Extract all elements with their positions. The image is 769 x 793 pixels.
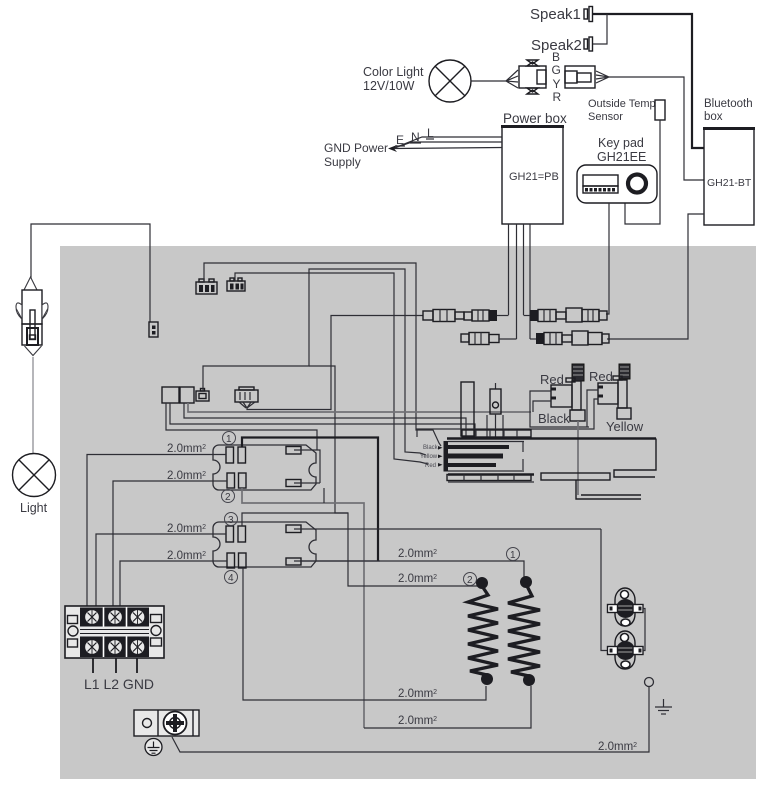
ground lug plate <box>134 710 199 736</box>
bullet connector pair row1-right <box>530 308 607 322</box>
lamp Color Light <box>429 60 471 102</box>
speaker connector J-SP1 <box>584 7 593 22</box>
svg-text:GH21=PB: GH21=PB <box>509 171 559 183</box>
inline lamp connector (left) <box>16 277 48 356</box>
svg-text:GH21EE: GH21EE <box>597 150 646 164</box>
small connector mid-left <box>196 389 209 402</box>
node 2 circled (coil end) <box>464 573 477 587</box>
wires solenoid1 leads <box>530 391 589 427</box>
relay RL2 pin pair bottom <box>227 553 246 568</box>
keypad GH21EE <box>577 165 657 203</box>
wire sensor to keypad <box>625 120 660 224</box>
solenoid valve S1 (Black) <box>551 364 585 421</box>
wire branch to relay2 area <box>309 366 348 513</box>
thermostat T2 <box>608 631 644 669</box>
arrow to GND power supply <box>388 145 397 152</box>
wire linking T1 and T2 right tabs <box>643 609 645 651</box>
node 1 circled (coil end) <box>507 548 520 562</box>
wire Speak2 join <box>593 14 607 44</box>
svg-text:2.0mm2: 2.0mm2 <box>398 573 437 585</box>
wire joining RL1 contacts <box>318 450 320 483</box>
svg-text:L: L <box>427 126 434 140</box>
svg-text:L1 L2 GND: L1 L2 GND <box>84 676 154 692</box>
svg-text:Outside Temp: Outside Temp <box>588 98 656 110</box>
heating element coil 2 <box>508 576 540 686</box>
svg-text:B: B <box>552 50 560 64</box>
wire row1-left to power wire <box>497 315 509 317</box>
wire CN2 to harness Yellow lead <box>235 273 428 464</box>
thermostat T1 <box>608 588 644 626</box>
svg-text:3: 3 <box>228 515 234 526</box>
node 2 circled <box>222 490 235 504</box>
tall rectangle component above heater <box>461 382 474 436</box>
node 1 circled <box>223 432 236 446</box>
wire 4-pin connector to bullet row1-left <box>247 316 423 410</box>
svg-text:Light: Light <box>20 501 48 515</box>
relay RL1 pin pair top <box>226 447 246 463</box>
svg-text:Sensor: Sensor <box>588 111 623 123</box>
svg-text:2: 2 <box>467 575 473 586</box>
svg-text:Speak1: Speak1 <box>530 6 581 23</box>
wire row2-left to power wire <box>499 338 517 340</box>
lamp Light <box>13 454 56 497</box>
svg-text:2.0mm2: 2.0mm2 <box>167 550 206 562</box>
wire row2-right to power wire <box>530 338 536 340</box>
svg-text:1: 1 <box>510 550 516 561</box>
wire drop to heater 2 <box>502 415 504 437</box>
connector CN2 (panel top) <box>227 278 245 291</box>
svg-text:2.0mm2: 2.0mm2 <box>398 688 437 700</box>
wire L1a to relay1 <box>87 455 226 607</box>
solenoid valve S2 (Yellow) <box>598 364 631 419</box>
svg-text:Key pad: Key pad <box>598 136 644 150</box>
connector pair mid-left B <box>180 387 194 403</box>
connector 4-pin right housing (harness side) <box>565 66 609 88</box>
svg-text:GH21-BT: GH21-BT <box>707 177 752 189</box>
wire 2 gray: relay1 pin2 to coil2 bottom <box>242 488 364 728</box>
wire L2b to relay2 <box>120 561 227 606</box>
wire coil2 bottom return <box>364 686 531 728</box>
relay box RL2 <box>213 522 316 567</box>
harness lead label Yellow <box>420 454 443 460</box>
wire small connector to harness Red lead <box>203 269 426 455</box>
wire row1-right to power wire <box>524 315 531 317</box>
wire connB pin to heater <box>184 403 466 437</box>
wire to thermostat T2 <box>601 529 608 651</box>
svg-text:Black: Black <box>423 445 439 451</box>
gray wire solenoid1 down to heater tap <box>577 421 579 495</box>
relay RL2 pin pair top <box>226 526 246 542</box>
bullet connector pair row2-right <box>536 331 609 345</box>
wire lamp to connector <box>471 80 506 82</box>
svg-text:Yellow: Yellow <box>606 419 644 434</box>
wire Speak1 to Bluetooth box <box>593 14 704 148</box>
node 4 circled <box>225 571 238 585</box>
heating element coil 1 <box>468 577 498 685</box>
svg-text:GND Power: GND Power <box>324 141 388 155</box>
svg-text:Yellow: Yellow <box>420 454 438 460</box>
wire connA pin to relay1 right contact (long) <box>166 403 317 450</box>
wire left lamp connector to small connector in panel <box>31 224 150 322</box>
wire L2a to relay1 <box>113 481 227 606</box>
relay box RL1 <box>213 445 316 490</box>
bullet connector pair row1-left <box>423 310 497 322</box>
wire 1: relay1 pin to heater coil 2 top <box>242 438 378 562</box>
relay RL1 contact top-right <box>286 447 318 455</box>
outside temp sensor probe <box>655 100 665 120</box>
svg-text:2: 2 <box>225 492 231 503</box>
wires E N L from power box <box>394 137 502 149</box>
svg-text:Red: Red <box>589 369 613 384</box>
harness lead label Red <box>425 463 443 469</box>
earth ground symbol <box>655 699 672 714</box>
svg-text:Y: Y <box>553 77 561 91</box>
connector 4-pin with crimp (mid) <box>235 387 258 408</box>
node 3 circled <box>225 513 238 527</box>
wire 3: relay2 pin up-over to coil1 top <box>242 513 478 586</box>
wire BGYR connector to Bluetooth box <box>609 77 704 180</box>
wire keypad to inline connector <box>606 203 609 314</box>
wire CN1 to harness Black lead <box>204 263 441 446</box>
svg-text:G: G <box>552 63 561 77</box>
gray panel <box>60 246 756 779</box>
wire drop to heater <box>486 415 488 437</box>
wire L1b to relay2 <box>96 534 226 606</box>
svg-text:2.0mm2: 2.0mm2 <box>598 741 637 753</box>
svg-text:R: R <box>553 90 562 104</box>
wire stub relay1 lower contact to gray wire <box>323 488 325 503</box>
wire bluetooth box to bullet connector row2 <box>607 214 704 339</box>
terminal block bottom pins <box>93 658 137 673</box>
terminal block TB1 <box>65 606 164 658</box>
speaker connector J-SP2 <box>584 37 593 51</box>
wire connB pin2 (gray) to solenoid area <box>188 403 531 412</box>
wire ground run <box>172 687 649 753</box>
svg-text:Supply: Supply <box>324 155 361 169</box>
svg-text:box: box <box>704 111 723 123</box>
relay RL1 pin pair bottom <box>227 473 246 488</box>
wire 4: relay2 pin down to coil1 bottom <box>243 568 486 700</box>
svg-text:Power box: Power box <box>503 111 567 126</box>
fuse component F1 <box>490 383 501 437</box>
svg-text:12V/10W: 12V/10W <box>363 79 415 93</box>
connector 4-pin left housing (lamp side) <box>506 60 546 94</box>
connector CN1 (panel top) <box>196 279 217 294</box>
wire heater1 feed (circuit 1) <box>300 561 524 577</box>
svg-text:2.0mm2: 2.0mm2 <box>167 443 206 455</box>
power box GH21-PB <box>501 126 564 224</box>
bluetooth box GH21-BT <box>703 128 755 225</box>
relay RL1 contact bottom-right <box>286 480 320 487</box>
svg-text:2.0mm2: 2.0mm2 <box>398 548 437 560</box>
svg-text:4: 4 <box>228 573 234 584</box>
svg-text:Red: Red <box>425 463 436 469</box>
connector pair mid-left A <box>162 387 179 403</box>
svg-text:2.0mm2: 2.0mm2 <box>167 470 206 482</box>
svg-text:Black: Black <box>538 411 570 426</box>
heater internal lead wires (double) <box>576 480 641 499</box>
svg-text:Bluetooth: Bluetooth <box>704 98 753 110</box>
svg-text:Color Light: Color Light <box>363 65 424 79</box>
ground pigtail circle <box>645 678 654 687</box>
wire connector to Light lamp <box>32 357 34 453</box>
harness lead label Black <box>423 445 443 451</box>
svg-text:2.0mm2: 2.0mm2 <box>398 715 437 727</box>
relay RL2 contact top-right <box>286 525 601 533</box>
wire connA pin2 to heater <box>170 403 475 437</box>
wires solenoid2 leads <box>417 390 598 437</box>
heater element terminal block <box>444 430 657 482</box>
small connector fed from lamp circuit <box>149 322 158 337</box>
svg-text:1: 1 <box>226 434 232 445</box>
wires power box outputs <box>509 224 531 339</box>
relay RL2 contact bottom-right <box>286 558 380 565</box>
bullet connector row2-left <box>461 333 499 345</box>
svg-text:2.0mm2: 2.0mm2 <box>167 523 206 535</box>
earth circle symbol <box>145 739 162 756</box>
